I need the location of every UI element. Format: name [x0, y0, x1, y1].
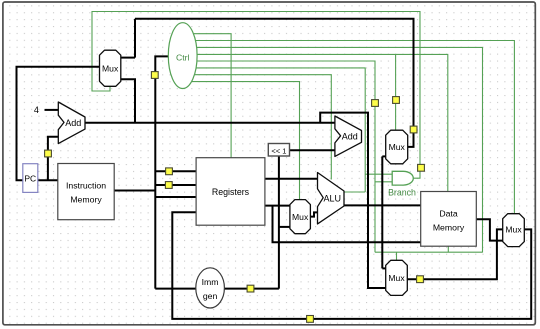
- svg-text:Mux: Mux: [102, 63, 119, 73]
- svg-text:4: 4: [34, 105, 39, 115]
- wire immediate up to shift left 1: [278, 156, 280, 289]
- Registers: [196, 158, 265, 226]
- Data Memory: [421, 192, 477, 247]
- svg-text:<< 1: << 1: [271, 147, 286, 156]
- wire Read data 1 to ALU input 1: [265, 178, 318, 180]
- svg-text:Instruction: Instruction: [66, 180, 106, 190]
- wire constant 4 to Add input 1: [45, 109, 59, 111]
- writeback Mux: [386, 260, 408, 295]
- wire shift left 1 output to branch Add input 2: [290, 149, 335, 151]
- wire instruction spine up to Ctrl input: [155, 56, 168, 288]
- svg-text:Memory: Memory: [433, 223, 465, 233]
- wire ALU result vertical branch: [381, 156, 383, 268]
- wire ALUOp: Ctrl to ALU top: [190, 75, 331, 180]
- wire RegWrite: Ctrl to Registers top: [190, 34, 231, 158]
- adder Add branch target: [335, 116, 362, 156]
- wire ALU result to Data Memory address: [344, 204, 421, 206]
- svg-text:Data: Data: [439, 209, 458, 219]
- memory to register Mux: [503, 214, 525, 247]
- wire Data Memory read data to right Mux input 2: [476, 219, 502, 240]
- svg-text:Mux: Mux: [389, 142, 406, 152]
- svg-text:Memory: Memory: [70, 195, 102, 205]
- svg-text:Branch: Branch: [388, 187, 416, 197]
- wire PC+4 bus to branch Add input 1: [85, 122, 335, 124]
- wire Imm gen output: [224, 288, 279, 290]
- svg-text:Mux: Mux: [388, 273, 405, 283]
- svg-text:ALU: ALU: [324, 193, 342, 203]
- Ctrl unit ellipse: [168, 23, 197, 89]
- wire ALUSrc: Ctrl to ALU Mux select: [190, 82, 300, 200]
- Imm gen ellipse: [196, 268, 225, 308]
- PC register: [23, 164, 38, 193]
- junction square writeback Mux output: [417, 276, 424, 283]
- wire PC+4 up to PC Mux input 2: [121, 79, 135, 122]
- wire ALU result to writeback Mux input 1: [382, 267, 385, 269]
- ALU source Mux: [290, 200, 311, 234]
- wire PC+4 over branch Add down to writeback Mux input 2: [320, 113, 386, 288]
- junction square Imm output: [247, 285, 254, 292]
- wire instruction to Read register 2: [155, 184, 196, 186]
- wire branch Mux select drop: [395, 54, 397, 130]
- wire Ctrl line 6 down to Zero net: [190, 68, 365, 192]
- shift left 1 box: [268, 144, 289, 157]
- wire AND gate input 1: [365, 173, 392, 175]
- junction square Branch control: [372, 100, 379, 107]
- adder Add PC+4: [58, 102, 85, 144]
- wire Zero flag from ALU: [344, 191, 365, 193]
- wire instruction to Imm gen input: [155, 288, 196, 290]
- junction square branch Mux select: [393, 97, 400, 104]
- wire ALU Mux output to ALU input 2: [310, 212, 317, 216]
- svg-text:PC: PC: [24, 174, 36, 184]
- svg-text:Mux: Mux: [505, 225, 522, 235]
- wire Branch control to AND gate input 2: [190, 61, 375, 252]
- svg-text:Ctrl: Ctrl: [176, 53, 190, 63]
- wire MemtoReg: Ctrl to right Mux select: [190, 41, 514, 214]
- wire PCSrc: AND gate output around top to PC Mux select: [92, 12, 420, 179]
- wire PC up to Add input 2: [48, 137, 58, 180]
- svg-text:Imm: Imm: [202, 277, 219, 287]
- wire PC Mux input 1 stub: [121, 57, 135, 59]
- wire MemWrite: Ctrl to Data Memory top: [190, 54, 448, 191]
- PC source Mux: [100, 50, 121, 86]
- wire select bus along bottom of Data Memory: [375, 251, 483, 253]
- svg-text:Registers: Registers: [212, 187, 250, 197]
- AND gate Branch: [392, 171, 413, 185]
- svg-text:gen: gen: [203, 291, 218, 301]
- wire instruction to Read register 1: [155, 170, 196, 172]
- junction square writeback bottom wire: [307, 316, 314, 323]
- wire Read data 2 to ALU Mux input 1: [265, 205, 290, 207]
- wire ALU result to branch Mux input 2: [382, 155, 385, 157]
- junction square PC/Add: [45, 150, 52, 157]
- wire Instruction Memory output to instruction spine: [114, 190, 155, 192]
- junction square AND output: [418, 164, 425, 171]
- wire writeback Mux select drop: [396, 252, 398, 260]
- wire immediate to ALU Mux input 2: [279, 226, 290, 228]
- ALU: [318, 173, 345, 224]
- junction square read reg 1: [166, 168, 173, 175]
- svg-text:Mux: Mux: [292, 212, 309, 222]
- branch target Mux: [386, 130, 408, 164]
- wire MemRead: Ctrl around Data Memory to its bottom: [190, 47, 483, 252]
- wire next PC from branch Mux output across top: [135, 19, 414, 147]
- svg-text:Add: Add: [342, 131, 358, 141]
- junction square next PC wire: [410, 126, 417, 133]
- svg-text:Add: Add: [65, 118, 81, 128]
- wire writeback Mux output to right Mux input 1: [407, 229, 502, 279]
- wire Read data 2 down to Data Memory write data: [273, 206, 421, 243]
- wire right Mux output looped to Registers write data: [172, 212, 531, 319]
- junction square instruction spine: [151, 72, 158, 79]
- wire into Data Memory bottom: [447, 246, 449, 252]
- wire instruction to Write register: [155, 196, 196, 198]
- junction square read reg 2: [165, 182, 172, 189]
- Instruction Memory: [58, 164, 114, 220]
- wire PC to Instruction Memory: [38, 179, 58, 181]
- wire next PC drop to PC Mux: [134, 19, 136, 58]
- wire PC Mux output to PC: [17, 67, 100, 181]
